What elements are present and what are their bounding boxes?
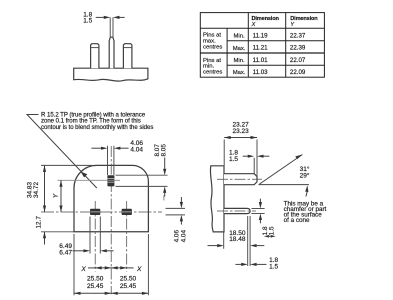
centerline vertical N pin	[126, 201, 128, 272]
stray segment	[163, 195, 165, 200]
ext top edge left	[41, 164, 92, 166]
dim 25.50 bottom line	[74, 292, 148, 294]
side earth pin centerline	[217, 178, 262, 180]
left pin side view	[91, 44, 99, 68]
leader line to contour	[27, 115, 97, 189]
N pin front	[122, 209, 132, 215]
dim 1.8/1.5 bottom tip	[235, 263, 241, 265]
ext N pin top/bottom right	[166, 207, 186, 209]
svg-text:11.01: 11.01	[253, 57, 269, 64]
dim X left	[88, 267, 95, 269]
dim 1.8/1.5 pin width	[96, 16, 104, 18]
ext 23.27 right / pin tip	[256, 140, 258, 177]
dim 34.83	[44, 165, 46, 212]
svg-text:25.45: 25.45	[87, 283, 104, 290]
ext LN pin edges right	[252, 208, 265, 210]
svg-text:11.03: 11.03	[253, 69, 269, 76]
svg-text:Y: Y	[290, 22, 295, 28]
svg-text:12.7: 12.7	[35, 216, 42, 229]
dim 18.50	[208, 245, 218, 247]
svg-text:8.05: 8.05	[161, 144, 168, 157]
dim X right	[111, 267, 127, 269]
side view body	[210, 166, 224, 232]
svg-text:Min.: Min.	[234, 58, 245, 64]
pins side view base	[74, 68, 148, 81]
svg-text:of a cone: of a cone	[284, 217, 310, 224]
dim 8.07 right	[164, 158, 166, 169]
dim 4.06 right	[180, 197, 182, 202]
side LN pin centerline	[217, 210, 256, 212]
centerline horizontal LN	[41, 211, 162, 213]
ext 23.27 left	[223, 140, 225, 166]
svg-text:X: X	[136, 266, 142, 273]
svg-text:11.19: 11.19	[253, 32, 269, 39]
svg-text:1.5: 1.5	[229, 156, 238, 163]
svg-text:18.48: 18.48	[229, 236, 246, 243]
angle up arrow	[306, 192, 307, 197]
earth pin front	[107, 175, 114, 186]
svg-text:22.07: 22.07	[290, 57, 306, 64]
svg-text:1.5: 1.5	[269, 263, 278, 270]
svg-text:34.72: 34.72	[33, 182, 40, 198]
svg-text:22.09: 22.09	[290, 69, 306, 76]
dim 6.49	[73, 250, 84, 252]
ext LN tip down lines	[247, 216, 249, 266]
ext plug side edges down	[73, 234, 75, 295]
ext chamfer start up	[253, 158, 255, 174]
svg-text:4.04: 4.04	[180, 230, 187, 243]
angle diagonal ray	[259, 155, 303, 185]
ext bottom edge left	[41, 231, 74, 233]
dim 12.7	[44, 232, 46, 245]
svg-text:25.50: 25.50	[87, 276, 104, 283]
svg-text:centres: centres	[203, 70, 222, 76]
side earth pin	[224, 174, 257, 185]
centerline vertical earth	[110, 146, 112, 294]
svg-text:25.50: 25.50	[120, 276, 137, 283]
L pin front	[90, 209, 100, 215]
svg-text:1.5: 1.5	[269, 226, 276, 235]
svg-text:29°: 29°	[300, 172, 310, 180]
svg-text:Dimension: Dimension	[290, 16, 318, 22]
svg-text:X: X	[80, 266, 86, 273]
svg-text:22.37: 22.37	[290, 32, 306, 39]
earth pin side view	[109, 37, 114, 68]
dim 4.06 top	[91, 147, 101, 149]
plug face outline	[74, 165, 148, 231]
svg-text:Min.: Min.	[234, 33, 245, 39]
svg-text:X: X	[251, 22, 257, 28]
svg-text:23.23: 23.23	[232, 128, 249, 135]
dim 1.8/1.5 chamfer	[243, 155, 248, 157]
earth pin extension lines	[109, 17, 111, 37]
side LN pin	[224, 208, 250, 213]
svg-text:6.47: 6.47	[59, 250, 72, 257]
tiny arrows under rotated labels	[264, 235, 269, 238]
rotated labels 1.8/1.5	[262, 226, 276, 235]
svg-text:contour is to blend smoothly w: contour is to blend smoothly with the si…	[41, 124, 153, 131]
svg-text:11.21: 11.21	[253, 45, 269, 52]
svg-text:Max.: Max.	[233, 46, 246, 52]
right pin side view	[123, 44, 131, 68]
svg-text:centres: centres	[203, 44, 222, 50]
svg-text:4.04: 4.04	[130, 147, 143, 154]
centerline vertical L pin	[94, 201, 96, 272]
svg-text:Y: Y	[52, 193, 59, 198]
ext L pin sides down	[89, 217, 91, 254]
svg-text:25.45: 25.45	[120, 283, 137, 290]
dim Y	[60, 180, 62, 212]
svg-text:Max.: Max.	[233, 70, 246, 76]
dim 1.8/1.5 vertical pin thickness	[259, 199, 261, 202]
ext body face down	[223, 232, 225, 249]
angle horizontal ray	[259, 184, 309, 186]
svg-text:Dimension: Dimension	[252, 16, 280, 22]
dim 23.27	[224, 137, 257, 139]
ext earth pin top/bottom right	[116, 174, 168, 176]
table grid	[200, 13, 324, 78]
ext earth centre left	[58, 179, 121, 181]
svg-text:22.39: 22.39	[290, 45, 306, 52]
ext earth pin sides up	[107, 146, 109, 175]
svg-text:1.5: 1.5	[83, 17, 92, 24]
